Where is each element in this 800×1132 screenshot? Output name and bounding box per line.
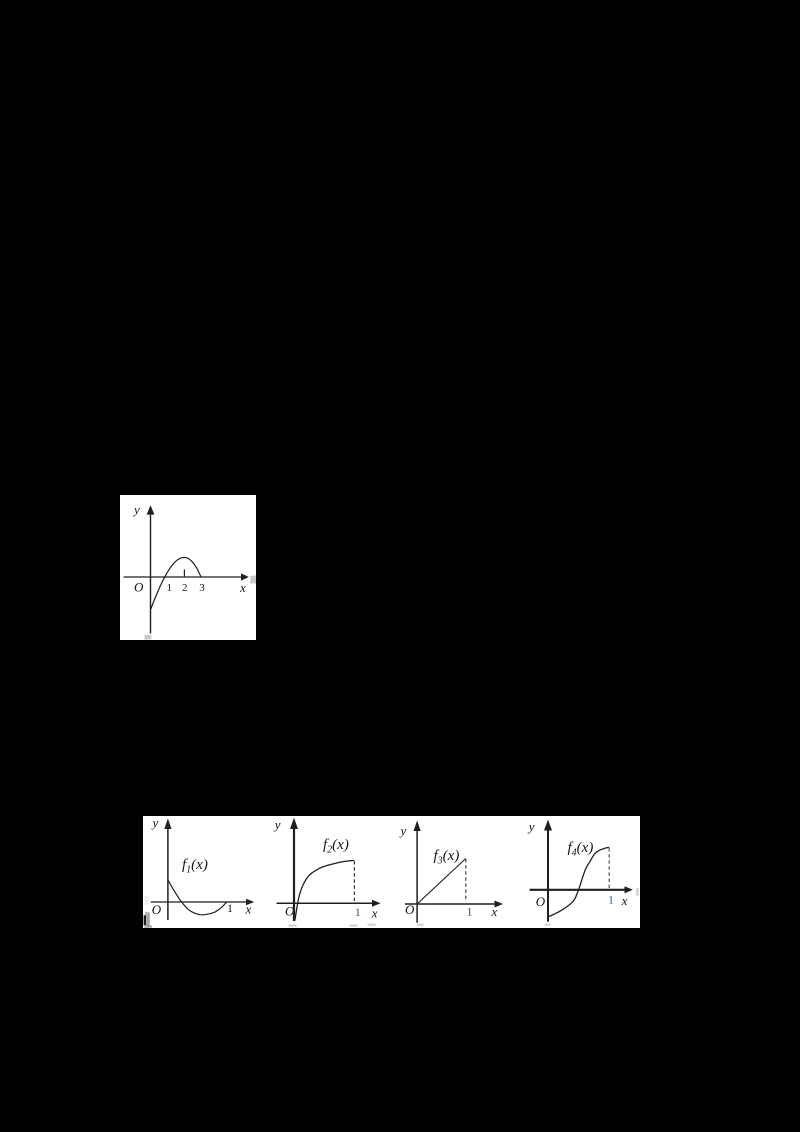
figure 1: cubic curve with zeros near 1 and 3 (120, 495, 256, 640)
g4 y-axis arrowhead (544, 820, 552, 831)
svg-text:O: O (134, 580, 144, 595)
svg-text:O: O (285, 903, 295, 918)
svg-text:x: x (491, 904, 498, 919)
g4 selection handle bottom (545, 923, 551, 926)
svg-text:f4(x): f4(x) (568, 840, 594, 859)
svg-text:y: y (132, 502, 140, 517)
svg-text:2: 2 (182, 582, 188, 594)
g3 x-axis arrowhead (495, 901, 504, 908)
g4 S-curve (549, 847, 609, 916)
svg-text:x: x (245, 902, 252, 917)
x-axis arrowhead (241, 573, 249, 580)
g3 selection handle (417, 924, 424, 927)
g4 x-axis arrowhead (625, 886, 633, 893)
g3 dashed drop line (465, 859, 467, 902)
g1 curve (168, 880, 227, 915)
svg-text:x: x (371, 906, 378, 921)
g4 selection handle right (636, 888, 639, 896)
g2 curve (295, 860, 354, 920)
g1 gray artifact numeral (144, 915, 146, 925)
svg-text:O: O (152, 902, 162, 917)
svg-text:x: x (239, 580, 246, 595)
g2 y-axis (293, 825, 295, 921)
g3 y-axis (416, 828, 418, 923)
g2 x-axis (277, 902, 375, 904)
svg-text:1: 1 (355, 905, 361, 919)
svg-text:1: 1 (227, 901, 233, 915)
svg-text:3: 3 (199, 582, 205, 594)
selection handle right (250, 576, 256, 584)
g3 x-axis (405, 903, 497, 905)
svg-text:O: O (536, 894, 546, 909)
g1 x-axis arrowhead (246, 899, 254, 906)
svg-text:O: O (405, 902, 415, 917)
y-axis arrowhead (147, 505, 155, 514)
svg-text:y: y (527, 819, 535, 834)
g1 y-axis (167, 826, 169, 920)
g3 y-axis arrowhead (414, 821, 421, 832)
g1 x-axis (151, 901, 248, 903)
x-axis (124, 576, 242, 578)
curve f(x) (151, 557, 201, 609)
svg-text:1: 1 (608, 892, 614, 906)
tick at x=2 (183, 569, 185, 577)
y-axis (150, 512, 152, 634)
svg-text:f1(x): f1(x) (182, 857, 208, 876)
selection handle bottom (145, 635, 152, 640)
svg-text:f3(x): f3(x) (434, 848, 460, 867)
g3 line y=x (417, 859, 466, 905)
g4 x-axis (530, 889, 626, 891)
g1 y-axis arrowhead (164, 819, 171, 830)
svg-text:y: y (151, 816, 159, 830)
g2 y-axis arrowhead (290, 818, 298, 829)
svg-text:1: 1 (167, 582, 173, 594)
g2 selection handles (289, 924, 297, 927)
g4 dashed drop line (608, 848, 610, 889)
svg-text:f2(x): f2(x) (323, 837, 349, 856)
g2 x-axis arrowhead (372, 900, 381, 907)
svg-text:1: 1 (467, 905, 473, 919)
g2 dashed drop line (353, 861, 355, 903)
g4 y-axis (547, 827, 549, 922)
svg-text:y: y (273, 817, 281, 832)
svg-text:y: y (399, 823, 407, 838)
figure 2: four candidate graphs f1..f4 (143, 816, 640, 928)
svg-text:x: x (621, 893, 628, 908)
g1 faint left selection handle (145, 896, 150, 905)
